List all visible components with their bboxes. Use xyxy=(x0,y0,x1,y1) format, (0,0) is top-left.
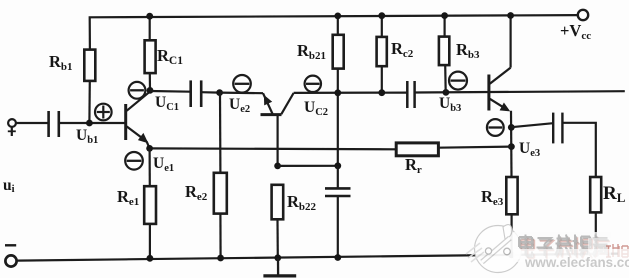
node Uc1 collector junction dot xyxy=(147,87,154,94)
wire Q2 collector rail xyxy=(294,91,407,94)
watermark logo circle xyxy=(466,225,522,273)
node Rb3 top rail dot xyxy=(441,12,448,19)
wire Rc2 top lead xyxy=(381,16,383,37)
node Ub1 junction dot xyxy=(86,120,93,127)
resistor RL xyxy=(590,177,601,212)
svg-text:+Vcc: +Vcc xyxy=(560,21,591,42)
svg-text:Ue2: Ue2 xyxy=(229,96,250,115)
node Re2 rail dot xyxy=(217,255,224,262)
ground symbol xyxy=(263,258,296,276)
wire Rb21 top lead xyxy=(337,16,339,35)
node Q2 base connector left dot xyxy=(274,163,281,170)
wire feedback Ue1 to Rr to Ue3 xyxy=(150,147,397,150)
node Re1 rail dot xyxy=(147,255,154,262)
resistor Rb3 xyxy=(439,37,449,66)
node Rc2 bottom dot xyxy=(378,89,385,96)
node RL rail dot xyxy=(592,251,599,258)
wire Rb21 down to base connector xyxy=(337,69,339,166)
wire cap to Q1 base xyxy=(59,122,125,124)
svg-text:Re2: Re2 xyxy=(185,182,208,203)
wire bypass cap bottom lead xyxy=(337,196,339,258)
wire Uc1 to coupling cap C1 xyxy=(150,90,191,93)
wire Rc1 top lead xyxy=(149,16,151,40)
svg-text:Re3: Re3 xyxy=(481,187,504,208)
wire Re2 bottom lead xyxy=(219,214,221,258)
svg-text:Rb22: Rb22 xyxy=(287,192,317,213)
node Rb21 collector wire crossing dot xyxy=(334,89,341,96)
wire C2 to Q3 base (long) xyxy=(415,91,625,92)
node ground junction dot xyxy=(274,254,281,261)
resistor Rb1 xyxy=(84,50,95,81)
wire Re2 column from Ue2 node to rail xyxy=(219,93,222,173)
wire base connector to bypass cap xyxy=(278,165,338,167)
capacitor C-in (input coupling) xyxy=(49,111,59,137)
wire bottom ground rail xyxy=(17,254,618,261)
node base connector right dot xyxy=(334,162,341,169)
svg-text:Rr: Rr xyxy=(405,155,422,176)
node Ub3 junction dot xyxy=(443,89,450,96)
svg-text:Rc2: Rc2 xyxy=(391,39,414,60)
resistor Rc2 xyxy=(377,37,387,66)
wire RL bottom lead xyxy=(595,212,597,254)
polarity symbol plus at Ub1 xyxy=(95,104,112,121)
watermark big characters (stylized) xyxy=(513,232,629,270)
wire input to coupling cap xyxy=(16,122,48,124)
resistor Rb21 xyxy=(333,35,344,69)
transistor Q1 xyxy=(126,92,150,148)
polarity symbol minus at Uc1 xyxy=(129,82,146,99)
capacitor C1 (stage1-stage2 coupling) xyxy=(191,80,202,107)
wire Ue2 to Q2 emitter xyxy=(220,91,263,94)
node Ue3 upper dot xyxy=(508,124,515,131)
node Q3 collector rail dot xyxy=(507,12,514,19)
wire Re3 bottom lead xyxy=(511,214,513,255)
svg-text:UC1: UC1 xyxy=(155,94,179,113)
capacitor C-bypass (base bypass) xyxy=(325,188,351,196)
svg-text:Rb3: Rb3 xyxy=(456,40,480,61)
resistor Re3 xyxy=(506,177,517,214)
input terminal (signal source, top) xyxy=(8,119,16,136)
polarity symbol minus at Ub3 xyxy=(449,72,467,90)
resistor Re1 xyxy=(144,186,156,224)
watermark red accent characters xyxy=(588,238,629,260)
node Ue2 junction dot xyxy=(216,89,223,96)
svg-text:Ub1: Ub1 xyxy=(76,127,98,146)
wire Rb1 to base node xyxy=(88,81,91,123)
node Ue3 lower dot xyxy=(508,143,515,150)
svg-text:ui: ui xyxy=(3,177,15,195)
wire Ue3 to output cap xyxy=(511,123,553,127)
svg-text:Ue3: Ue3 xyxy=(519,140,540,159)
capacitor C2 (stage2-stage3 coupling) xyxy=(407,81,414,108)
wire Rc2 bottom lead xyxy=(381,66,383,93)
node Rc2 top rail dot xyxy=(378,12,385,19)
wire C-out to RL xyxy=(562,123,595,177)
svg-text:Ue1: Ue1 xyxy=(153,155,174,174)
resistor Rr (feedback) xyxy=(396,143,438,156)
polarity symbol minus at Ue1 xyxy=(125,152,143,170)
node Rb21 top rail dot xyxy=(334,13,341,20)
wire Q3 emitter column xyxy=(510,111,513,177)
node Rc1 top rail dot xyxy=(146,13,153,20)
wire Rc1 bottom to collector node xyxy=(149,73,151,90)
svg-text:RL: RL xyxy=(603,183,626,205)
supply terminal +Vcc xyxy=(578,10,588,20)
svg-text:www.elecfans.com: www.elecfans.com xyxy=(524,255,629,270)
node bypass cap rail dot xyxy=(334,254,341,261)
capacitor C-out (output coupling) xyxy=(553,113,562,144)
wire Rb3 bottom lead xyxy=(444,65,447,93)
output/ground terminal (bottom left) xyxy=(5,245,17,266)
wire bypass cap top lead xyxy=(337,166,339,189)
svg-text:Re1: Re1 xyxy=(117,187,139,208)
svg-text:UC2: UC2 xyxy=(304,99,328,118)
polarity symbol minus at Uc2 xyxy=(305,76,321,92)
svg-text:Rb1: Rb1 xyxy=(49,52,73,73)
watermark url text xyxy=(513,249,629,262)
wire top supply rail with Rb1 lead xyxy=(90,15,578,50)
node Re3 rail dot xyxy=(508,252,515,259)
node Ue1 junction dot xyxy=(146,145,153,152)
wire C1 to Ue2 node xyxy=(201,91,219,94)
wire Rb22 bottom lead xyxy=(276,219,278,257)
svg-text:Ub3: Ub3 xyxy=(439,95,461,114)
transistor Q3 xyxy=(489,68,511,112)
svg-text:RC1: RC1 xyxy=(157,46,183,67)
wire Re1 top lead xyxy=(149,148,151,186)
polarity symbol minus at Ue3 xyxy=(487,119,504,136)
transistor Q2 xyxy=(261,93,294,166)
resistor Rb22 xyxy=(272,185,284,220)
resistor Rc1 xyxy=(145,40,156,73)
wire Rb3 top lead xyxy=(444,16,446,37)
wire Q3 collector to top rail xyxy=(510,16,512,68)
wire Re1 bottom lead xyxy=(149,224,151,258)
polarity symbol minus at Ue2 xyxy=(233,75,251,93)
resistor Re2 xyxy=(214,173,227,214)
svg-text:Rb21: Rb21 xyxy=(297,41,326,62)
